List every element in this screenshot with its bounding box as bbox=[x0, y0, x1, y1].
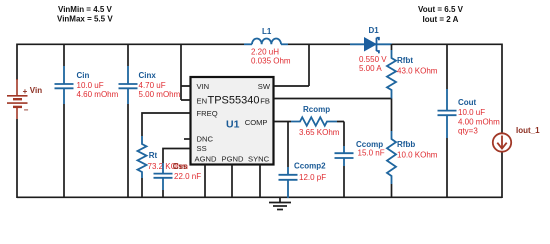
capacitor Css bbox=[154, 163, 173, 190]
capacitor Ccomp bbox=[335, 146, 354, 166]
wire VIN/EN to top rail bbox=[181, 44, 191, 101]
svg-text:L1: L1 bbox=[262, 27, 272, 36]
wire SYNC bbox=[259, 165, 261, 199]
wire COMP net bbox=[274, 122, 345, 147]
svg-text:0.550 V: 0.550 V bbox=[359, 55, 387, 64]
wire left rail bbox=[16, 44, 18, 199]
svg-text:D1: D1 bbox=[369, 26, 380, 35]
svg-text:4.60 mOhm: 4.60 mOhm bbox=[77, 90, 119, 99]
svg-text:SYNC: SYNC bbox=[248, 155, 270, 164]
svg-text:AGND: AGND bbox=[195, 155, 217, 164]
svg-text:Iout_1: Iout_1 bbox=[516, 126, 540, 135]
svg-text:Cout: Cout bbox=[458, 98, 477, 107]
wire bottom rail bbox=[17, 196, 502, 198]
current source Iout_1 bbox=[493, 133, 511, 151]
inductor L1 bbox=[244, 43, 252, 45]
svg-text:EN: EN bbox=[197, 96, 208, 105]
svg-text:−: − bbox=[24, 105, 29, 114]
wire PGND bbox=[231, 165, 233, 199]
svg-text:PGND: PGND bbox=[222, 155, 244, 164]
svg-text:Rcomp: Rcomp bbox=[303, 105, 330, 114]
wire Ccomp2 branch bbox=[287, 122, 289, 168]
svg-text:Ccomp2: Ccomp2 bbox=[294, 161, 326, 170]
svg-text:Rfbt: Rfbt bbox=[397, 56, 413, 65]
svg-text:5.00 A: 5.00 A bbox=[359, 64, 382, 73]
svg-text:5.00 mOhm: 5.00 mOhm bbox=[139, 90, 181, 99]
svg-text:FREQ: FREQ bbox=[197, 109, 218, 118]
svg-text:4.70 uF: 4.70 uF bbox=[139, 81, 166, 90]
svg-text:Cin: Cin bbox=[77, 71, 90, 80]
svg-text:22.0 nF: 22.0 nF bbox=[174, 172, 201, 181]
wire FB net bbox=[274, 98, 392, 100]
svg-text:Rt: Rt bbox=[149, 151, 158, 160]
svg-text:SS: SS bbox=[197, 144, 207, 153]
svg-text:Vin: Vin bbox=[30, 86, 42, 95]
svg-text:VinMin = 4.5 V: VinMin = 4.5 V bbox=[58, 5, 113, 14]
wire SW node bbox=[274, 44, 310, 87]
svg-text:Rfbb: Rfbb bbox=[397, 140, 415, 149]
diode D1 (schottky) bbox=[350, 43, 392, 45]
svg-text:10.0 uF: 10.0 uF bbox=[77, 81, 104, 90]
svg-text:10.0 uF: 10.0 uF bbox=[458, 108, 485, 117]
resistor Rcomp bbox=[291, 117, 337, 126]
wire AGND bbox=[204, 165, 206, 199]
svg-text:qty=3: qty=3 bbox=[458, 127, 478, 136]
ground bbox=[269, 197, 291, 209]
svg-text:VIN: VIN bbox=[197, 82, 210, 91]
svg-text:VinMax = 5.5 V: VinMax = 5.5 V bbox=[57, 14, 113, 23]
voltage source V1 (battery) bbox=[7, 79, 28, 119]
svg-text:TPS55340: TPS55340 bbox=[208, 95, 260, 107]
svg-text:3.65 KOhm: 3.65 KOhm bbox=[299, 128, 340, 137]
wire FREQ to Rt bbox=[142, 113, 191, 136]
wire SS to Css bbox=[163, 149, 191, 164]
resistor Rt bbox=[138, 136, 147, 178]
wire right rail bbox=[501, 44, 503, 199]
svg-text:4.00 mOhm: 4.00 mOhm bbox=[458, 117, 500, 126]
svg-text:Css: Css bbox=[173, 162, 188, 171]
svg-text:DNC: DNC bbox=[197, 135, 214, 144]
wire top rail bbox=[17, 43, 502, 45]
IC U1 TPS55340 bbox=[191, 77, 274, 165]
svg-text:15.0 nF: 15.0 nF bbox=[358, 148, 385, 157]
wire DNC stub bbox=[184, 138, 191, 140]
svg-text:43.0 KOhm: 43.0 KOhm bbox=[397, 66, 438, 75]
resistor Rfbb bbox=[391, 99, 393, 132]
capacitor Ccomp2 bbox=[279, 167, 298, 198]
capacitor Cout bbox=[446, 44, 448, 89]
capacitor Cinx bbox=[127, 44, 129, 66]
svg-text:Vout = 6.5 V: Vout = 6.5 V bbox=[418, 5, 464, 14]
svg-text:Iout = 2 A: Iout = 2 A bbox=[423, 15, 459, 24]
svg-text:SW: SW bbox=[258, 82, 271, 91]
svg-text:Cinx: Cinx bbox=[139, 71, 157, 80]
svg-text:2.20 uH: 2.20 uH bbox=[251, 47, 279, 56]
svg-text:+: + bbox=[23, 87, 28, 96]
svg-text:12.0 pF: 12.0 pF bbox=[299, 173, 326, 182]
resistor Rfbt bbox=[391, 44, 393, 50]
svg-text:10.0 KOhm: 10.0 KOhm bbox=[397, 150, 438, 159]
capacitor Cin bbox=[63, 44, 65, 66]
svg-text:FB: FB bbox=[260, 96, 270, 105]
svg-text:U1: U1 bbox=[226, 118, 240, 130]
svg-text:0.035 Ohm: 0.035 Ohm bbox=[251, 57, 291, 66]
svg-text:COMP: COMP bbox=[245, 118, 268, 127]
